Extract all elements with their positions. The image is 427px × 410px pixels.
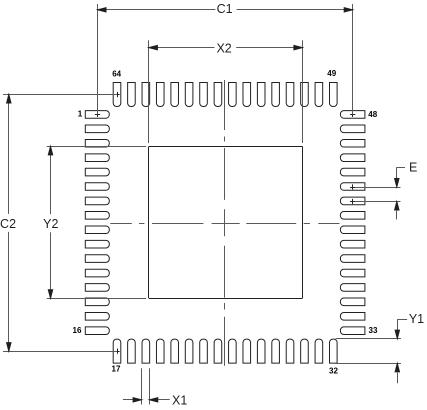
svg-text:X1: X1 — [172, 393, 187, 407]
svg-text:Y1: Y1 — [409, 312, 424, 326]
svg-text:16: 16 — [73, 326, 82, 335]
svg-text:64: 64 — [112, 69, 121, 78]
svg-text:32: 32 — [329, 366, 338, 375]
svg-text:E: E — [409, 161, 417, 175]
svg-text:Y2: Y2 — [43, 217, 58, 231]
svg-text:C2: C2 — [0, 217, 16, 231]
svg-text:49: 49 — [327, 69, 336, 78]
svg-text:X2: X2 — [216, 42, 231, 56]
svg-text:1: 1 — [78, 109, 83, 118]
svg-text:C1: C1 — [217, 2, 233, 16]
svg-text:48: 48 — [368, 110, 377, 119]
svg-text:33: 33 — [369, 326, 378, 335]
svg-text:17: 17 — [112, 364, 121, 373]
